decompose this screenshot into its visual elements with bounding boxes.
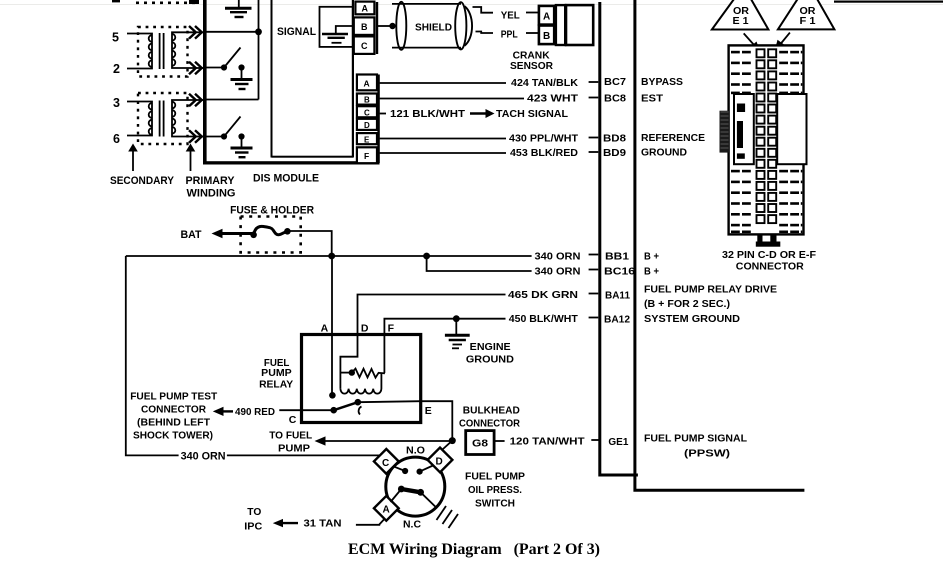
svg-text:120 TAN/WHT: 120 TAN/WHT bbox=[510, 436, 586, 448]
bulkhead connector G8 bbox=[466, 431, 494, 455]
label BULKHEAD CONNECTOR bbox=[459, 405, 520, 430]
svg-text:SYSTEM GROUND: SYSTEM GROUND bbox=[644, 313, 740, 325]
terminal 5 bbox=[112, 31, 119, 45]
wire T2 primary top to DIS with chevron bbox=[189, 94, 204, 107]
svg-text:465 DK GRN: 465 DK GRN bbox=[508, 289, 578, 301]
svg-text:BA11: BA11 bbox=[605, 289, 630, 301]
svg-text:PUMP: PUMP bbox=[261, 367, 292, 379]
wire relay E to bulkhead bbox=[358, 401, 453, 440]
svg-text:GE1: GE1 bbox=[608, 436, 628, 448]
svg-text:PUMP: PUMP bbox=[278, 443, 310, 455]
shield cylinder bbox=[392, 2, 472, 50]
DIS module bottom edge bbox=[203, 161, 380, 164]
svg-text:ENGINE: ENGINE bbox=[470, 341, 511, 353]
svg-text:2: 2 bbox=[113, 62, 120, 76]
svg-text:FUEL PUMP TEST: FUEL PUMP TEST bbox=[130, 391, 218, 403]
svg-text:A: A bbox=[383, 505, 390, 516]
label FUEL PUMP TEST CONNECTOR bbox=[130, 391, 218, 442]
svg-text:BULKHEAD: BULKHEAD bbox=[463, 405, 520, 417]
connector key triangle OR F1 bbox=[778, 0, 835, 29]
switch S2 bbox=[221, 117, 245, 140]
connector left panel bbox=[734, 94, 754, 164]
DIS connector pin C bbox=[354, 36, 375, 54]
connector pin squares (32 pins) bbox=[757, 49, 777, 223]
svg-text:D: D bbox=[364, 121, 370, 130]
wire DIS row 2 bbox=[207, 67, 225, 69]
signal ground box bbox=[320, 7, 353, 47]
connector key triangle OR E1 bbox=[712, 0, 769, 30]
oil pressure switch SW1 body bbox=[386, 457, 445, 516]
transformer T2 core bbox=[160, 101, 164, 137]
svg-text:FUSE & HOLDER: FUSE & HOLDER bbox=[230, 205, 314, 217]
DIS connector stack1 bracket bbox=[376, 2, 378, 54]
svg-text:N.O: N.O bbox=[406, 445, 425, 457]
wire relay pin A from bus bbox=[329, 256, 336, 399]
label 32 PIN C-D OR E-F CONNECTOR bbox=[722, 249, 817, 272]
svg-text:5: 5 bbox=[112, 31, 119, 45]
wire DIS row 5 bbox=[207, 31, 259, 33]
connector body rib texture bbox=[731, 51, 802, 233]
svg-text:SHIELD: SHIELD bbox=[415, 22, 452, 34]
crank sensor connector body bbox=[556, 5, 593, 45]
node engine ground junction bbox=[453, 315, 460, 322]
wire terminal A to IPC bbox=[356, 519, 385, 525]
svg-text:BAT: BAT bbox=[181, 229, 202, 241]
DIS module left edge bbox=[203, 0, 207, 165]
svg-text:SWITCH: SWITCH bbox=[475, 498, 515, 510]
svg-text:32 PIN C-D OR E-F: 32 PIN C-D OR E-F bbox=[722, 249, 817, 261]
connector left lock tab bbox=[720, 111, 730, 153]
svg-text:31 TAN: 31 TAN bbox=[304, 518, 342, 530]
transformer T1 primary winding bbox=[172, 32, 197, 68]
svg-text:TACH SIGNAL: TACH SIGNAL bbox=[496, 108, 569, 120]
svg-text:(B + FOR 2 SEC.): (B + FOR 2 SEC.) bbox=[644, 298, 730, 310]
wire 424 TAN/BLK (BYPASS row) bbox=[380, 76, 683, 89]
relay K1 fuel pump relay box bbox=[302, 335, 421, 423]
svg-text:OIL PRESS.: OIL PRESS. bbox=[468, 484, 522, 496]
label CRANK SENSOR bbox=[510, 50, 553, 72]
transformer T1 (coils 5-2) dashed case bbox=[138, 27, 188, 77]
svg-text:CONNECTOR: CONNECTOR bbox=[141, 404, 206, 416]
label SECONDARY with leader arrow bbox=[110, 144, 175, 188]
svg-text:430 PPL/WHT: 430 PPL/WHT bbox=[509, 133, 579, 145]
transformer T2 secondary winding bbox=[127, 102, 152, 136]
wire 340 ORN to oil pressure switch C bbox=[181, 451, 380, 463]
ECM pin stack2 pin C bbox=[357, 106, 377, 117]
svg-text:FUEL PUMP SIGNAL: FUEL PUMP SIGNAL bbox=[644, 433, 748, 445]
clipped top-right border line bbox=[834, 1, 943, 3]
DIS module inner divider bbox=[271, 0, 273, 158]
row BB1 B+ bbox=[535, 251, 660, 263]
fuse F1 bbox=[250, 226, 290, 238]
svg-text:BB1: BB1 bbox=[605, 251, 629, 263]
svg-text:BD8: BD8 bbox=[603, 133, 626, 145]
svg-text:F: F bbox=[388, 323, 395, 335]
svg-text:340 ORN: 340 ORN bbox=[181, 451, 226, 463]
ECM pin stack2 pin D bbox=[357, 119, 377, 130]
ECM pin stack2 pin E bbox=[357, 133, 377, 144]
ground G3 (under S2) bbox=[231, 137, 253, 158]
svg-text:F: F bbox=[364, 151, 369, 161]
crank sensor connector pin A bbox=[539, 6, 554, 25]
ECM pin stack2 pin A bbox=[357, 75, 377, 91]
wire 450 BLK/WHT to relay pin F bbox=[384, 319, 505, 335]
svg-text:WINDING: WINDING bbox=[187, 188, 236, 200]
svg-text:PPL: PPL bbox=[501, 29, 518, 41]
connector bottom tab bbox=[756, 234, 781, 246]
wire DIS row 3 loop bottom bbox=[207, 99, 259, 101]
svg-text:450 BLK/WHT: 450 BLK/WHT bbox=[509, 313, 579, 325]
svg-text:RELAY: RELAY bbox=[259, 378, 293, 390]
wire DIS row 6 bbox=[207, 136, 225, 138]
transformer T3 clipped remnant bbox=[112, 0, 199, 4]
terminal 3 bbox=[113, 96, 120, 110]
svg-text:TO FUEL: TO FUEL bbox=[269, 430, 313, 442]
ECM pin stack2 pin F bbox=[357, 147, 377, 163]
svg-text:B: B bbox=[543, 31, 550, 42]
label PRIMARY WINDING with leader arrow bbox=[186, 144, 236, 200]
svg-text:IPC: IPC bbox=[244, 521, 262, 533]
fuse holder dashed box bbox=[241, 217, 301, 253]
transformer T2 primary winding bbox=[172, 100, 197, 137]
svg-text:490 RED: 490 RED bbox=[235, 406, 275, 418]
svg-text:YEL: YEL bbox=[501, 10, 521, 22]
svg-text:340 ORN: 340 ORN bbox=[535, 266, 581, 278]
connector right panel tab bbox=[777, 94, 806, 164]
svg-text:B: B bbox=[364, 96, 370, 105]
svg-text:REFERENCE: REFERENCE bbox=[641, 132, 705, 144]
svg-text:423 WHT: 423 WHT bbox=[527, 93, 579, 105]
label TO FUEL PUMP with arrow bbox=[269, 430, 325, 455]
svg-text:A: A bbox=[321, 323, 329, 335]
wire 423 WHT (EST row) bbox=[380, 93, 664, 105]
transformer T1 secondary winding bbox=[127, 34, 152, 69]
svg-text:SECONDARY: SECONDARY bbox=[110, 175, 175, 187]
oil switch case ground hatch bbox=[437, 506, 459, 528]
transformer T1 core bbox=[160, 33, 164, 69]
wire node to oil switch D bbox=[443, 441, 452, 449]
svg-text:G8: G8 bbox=[472, 438, 488, 450]
relay coil branch from pin D bbox=[340, 335, 357, 389]
oil switch N.C contacts bbox=[391, 486, 437, 508]
svg-text:424 TAN/BLK: 424 TAN/BLK bbox=[511, 77, 578, 89]
svg-text:BYPASS: BYPASS bbox=[641, 76, 683, 88]
32 pin connector body bbox=[729, 45, 804, 234]
svg-text:340 ORN: 340 ORN bbox=[535, 251, 581, 263]
svg-text:BA12: BA12 bbox=[604, 314, 630, 326]
svg-text:A: A bbox=[362, 4, 369, 14]
svg-text:6: 6 bbox=[113, 132, 120, 146]
oil switch N.O contacts bbox=[395, 466, 434, 475]
relay suppression resistor R1 bbox=[340, 369, 385, 378]
wire PPL bbox=[476, 29, 539, 41]
relay switch contacts bbox=[330, 399, 361, 415]
wire 340 ORN to BC16 bbox=[427, 256, 532, 271]
DIS connector pin B bbox=[354, 17, 375, 35]
row GE1 fuel pump signal bbox=[494, 433, 747, 460]
svg-text:CONNECTOR: CONNECTOR bbox=[736, 260, 804, 272]
label FUEL PUMP OIL PRESS. SWITCH bbox=[465, 471, 525, 510]
svg-text:N.C: N.C bbox=[403, 519, 421, 531]
arrow E1 to connector bbox=[744, 33, 761, 52]
svg-text:E 1: E 1 bbox=[733, 15, 749, 27]
oil switch terminal C bbox=[374, 449, 399, 474]
arrow F1 to connector bbox=[775, 33, 790, 52]
wire YEL bbox=[473, 7, 539, 22]
svg-text:SENSOR: SENSOR bbox=[510, 60, 553, 72]
crank sensor connector pin B bbox=[539, 26, 554, 45]
svg-text:B +: B + bbox=[644, 251, 659, 263]
oil switch terminal D bbox=[428, 448, 453, 473]
svg-text:FUEL PUMP: FUEL PUMP bbox=[465, 471, 525, 483]
wire to fuel pump from node bbox=[324, 437, 456, 444]
svg-text:D: D bbox=[436, 457, 443, 468]
terminal 6 bbox=[113, 132, 120, 146]
svg-text:BC8: BC8 bbox=[604, 93, 626, 105]
svg-text:BC7: BC7 bbox=[604, 76, 626, 88]
switch S1 bbox=[221, 48, 245, 71]
DIS module right edge bbox=[352, 0, 354, 158]
transformer T2 (coils 3-6) dashed case bbox=[138, 93, 188, 144]
svg-text:A: A bbox=[364, 79, 370, 89]
wire T2 primary bottom to DIS with chevron bbox=[189, 130, 204, 143]
wire relay pin F internal bbox=[383, 335, 385, 374]
wire fuse to bus node bbox=[287, 231, 331, 256]
svg-text:SHOCK TOWER): SHOCK TOWER) bbox=[133, 430, 213, 442]
ECM connector right rail bbox=[633, 0, 804, 492]
svg-text:ECM Wiring Diagram (Part 2 Of: ECM Wiring Diagram (Part 2 Of 3) bbox=[348, 541, 600, 558]
svg-text:EST: EST bbox=[641, 93, 664, 105]
label TO IPC with arrow bbox=[244, 506, 298, 533]
wire 453 BLK/RED (GROUND row) bbox=[380, 147, 688, 160]
svg-text:GROUND: GROUND bbox=[641, 147, 687, 159]
svg-text:GROUND: GROUND bbox=[466, 354, 514, 366]
svg-text:TO: TO bbox=[247, 506, 261, 518]
wire T1 primary bottom to DIS with chevron bbox=[189, 62, 204, 75]
wire 465 DK GRN to relay pin D bbox=[358, 295, 506, 335]
svg-text:D: D bbox=[361, 323, 369, 335]
svg-text:FUEL PUMP RELAY DRIVE: FUEL PUMP RELAY DRIVE bbox=[644, 284, 777, 296]
svg-text:C: C bbox=[382, 458, 389, 469]
svg-text:453 BLK/RED: 453 BLK/RED bbox=[510, 147, 578, 159]
ground G4 (signal) bbox=[322, 26, 352, 43]
row BC16 B+ bbox=[535, 266, 660, 278]
wire bus down left side to 340 ORN bottom bbox=[126, 256, 179, 455]
terminal 2 bbox=[113, 62, 120, 76]
bus wire 340 ORN (B+ feed) bbox=[126, 253, 532, 260]
svg-text:3: 3 bbox=[113, 96, 120, 110]
row BA11 fuel pump relay drive bbox=[508, 284, 777, 311]
node N1 (coil feed junction) bbox=[255, 0, 262, 100]
label BAT with arrow bbox=[181, 229, 254, 241]
svg-text:PRIMARY: PRIMARY bbox=[186, 175, 236, 187]
wire pin B to shield with junction dot bbox=[377, 23, 396, 29]
ground G1 (DIS top) bbox=[225, 0, 252, 17]
ECM connector left rail bbox=[598, 2, 638, 477]
DIS inner signal box bottom bbox=[272, 156, 354, 158]
svg-text:BD9: BD9 bbox=[603, 147, 626, 159]
DIS connector pin A bbox=[355, 2, 374, 15]
ECM pin stack2 pin B bbox=[357, 94, 377, 105]
ground G5 engine ground bbox=[445, 319, 470, 349]
relay coil L1 bbox=[340, 373, 381, 393]
scan hairline bbox=[0, 4, 943, 5]
svg-text:B +: B + bbox=[644, 266, 659, 278]
wire 121 BLK/WHT to TACH SIGNAL bbox=[380, 108, 569, 120]
svg-text:DIS MODULE: DIS MODULE bbox=[253, 173, 319, 185]
svg-text:(PPSW): (PPSW) bbox=[684, 448, 730, 460]
wire T1 primary top to DIS with chevron bbox=[189, 26, 204, 39]
svg-text:F 1: F 1 bbox=[800, 15, 816, 27]
svg-text:121 BLK/WHT: 121 BLK/WHT bbox=[390, 108, 466, 120]
ground G2 (under S1) bbox=[231, 68, 253, 90]
svg-text:BC16: BC16 bbox=[604, 266, 635, 278]
row BA12 system ground bbox=[509, 313, 741, 326]
svg-text:C: C bbox=[361, 41, 368, 51]
svg-text:A: A bbox=[543, 12, 550, 23]
DIS stack2 bracket bbox=[377, 75, 379, 164]
svg-text:E: E bbox=[364, 135, 370, 144]
label FUEL PUMP RELAY bbox=[259, 357, 293, 391]
wire 490 RED with arrow to test connector bbox=[213, 406, 334, 418]
label ENGINE GROUND bbox=[466, 341, 514, 366]
svg-text:SIGNAL: SIGNAL bbox=[277, 26, 316, 38]
svg-text:C: C bbox=[364, 108, 370, 117]
svg-text:(BEHIND LEFT: (BEHIND LEFT bbox=[137, 417, 211, 429]
wire 430 PPL/WHT (REFERENCE row) bbox=[380, 132, 705, 145]
oil switch terminal A bbox=[374, 496, 399, 521]
svg-text:C: C bbox=[289, 414, 297, 426]
svg-text:E: E bbox=[425, 405, 432, 417]
svg-text:CONNECTOR: CONNECTOR bbox=[459, 418, 520, 430]
svg-text:B: B bbox=[361, 22, 368, 32]
